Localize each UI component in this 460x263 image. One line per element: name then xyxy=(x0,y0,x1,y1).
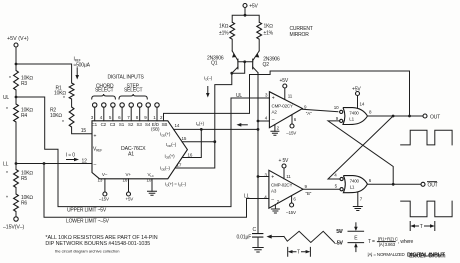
svg-text:LL: LL xyxy=(244,194,250,200)
label IO(-) current annotation with down arrow xyxy=(204,75,213,97)
svg-text:*ALL 10KΩ RESISTORS ARE PART O: *ALL 10KΩ RESISTORS ARE PART OF 14-PIN xyxy=(45,235,157,241)
resistor R3 xyxy=(9,71,33,91)
svg-text:IOE(–): IOE(–) xyxy=(160,166,171,172)
svg-text:|A| = NORMALIZED: |A| = NORMALIZED xyxy=(368,252,406,257)
svg-text:9: 9 xyxy=(336,116,339,121)
node LL xyxy=(3,161,17,167)
wire A2 inverting input from cap bus xyxy=(258,120,269,122)
node junction top-left rail xyxy=(15,63,18,66)
svg-text:–: – xyxy=(272,117,275,123)
label E amplitude annotation xyxy=(335,223,364,252)
svg-text:C1: C1 xyxy=(92,122,98,127)
NAND gate L1 bottom 7400 xyxy=(334,172,372,192)
resistor R1 xyxy=(54,83,74,102)
svg-text:R4: R4 xyxy=(21,113,27,119)
svg-text:5: 5 xyxy=(335,184,338,189)
svg-text:15: 15 xyxy=(182,136,187,141)
svg-text:16: 16 xyxy=(123,177,128,182)
svg-text:R5: R5 xyxy=(21,176,27,182)
svg-text:CMP-02CY: CMP-02CY xyxy=(271,182,292,187)
label A2 output node A xyxy=(304,105,312,117)
label period formula xyxy=(368,236,414,246)
svg-text:17: 17 xyxy=(177,163,182,168)
svg-text:|A| 3.863: |A| 3.863 xyxy=(379,242,396,247)
svg-text:+5V: +5V xyxy=(249,3,258,9)
square wave symbol top OUT xyxy=(401,130,452,145)
svg-text:1KΩ: 1KΩ xyxy=(219,24,229,30)
svg-text:*: * xyxy=(9,76,11,82)
ground capacitor xyxy=(253,248,263,253)
svg-text:OUT: OUT xyxy=(430,114,440,120)
svg-text:CMP-02CY: CMP-02CY xyxy=(272,103,293,108)
label I=0 with arrow xyxy=(66,152,87,164)
label STEP SELECT xyxy=(124,83,142,93)
svg-text:LL: LL xyxy=(3,161,9,167)
wire OUT from gate 8 xyxy=(368,115,424,117)
svg-text:13: 13 xyxy=(98,177,103,182)
svg-text:+5V: +5V xyxy=(126,196,134,201)
label triangle wave annotation arrow to cap xyxy=(267,235,285,239)
wire Q2 collector to capacitor bus xyxy=(257,73,259,234)
node UL xyxy=(3,95,17,101)
svg-text:*: * xyxy=(6,171,8,177)
wire SB feedback from OUT xyxy=(164,71,410,121)
svg-text:1KΩ: 1KΩ xyxy=(264,24,274,30)
svg-text:10: 10 xyxy=(147,177,152,182)
svg-text:±1%: ±1% xyxy=(264,31,274,37)
svg-text:+: + xyxy=(94,134,97,140)
svg-text:0.01μF: 0.01μF xyxy=(237,234,252,240)
svg-text:12: 12 xyxy=(82,158,88,164)
ground VLC xyxy=(148,191,157,195)
svg-text:11: 11 xyxy=(288,94,293,99)
node OUTbar terminal xyxy=(421,182,438,189)
brace chord group xyxy=(92,94,116,99)
svg-text:UL: UL xyxy=(3,95,9,101)
triangle waveform symbol xyxy=(284,231,334,242)
svg-text:7: 7 xyxy=(360,197,363,202)
svg-text:–15V: –15V xyxy=(99,197,109,202)
resistor R4 xyxy=(6,104,33,122)
wire latch cross coupling B (out to input 4) xyxy=(328,116,393,179)
resistor 1k left xyxy=(219,22,235,39)
svg-text:+ 5V: + 5V xyxy=(279,158,290,164)
svg-text:S3: S3 xyxy=(137,122,143,127)
label T period marker triangle xyxy=(288,247,311,256)
svg-text:9: 9 xyxy=(305,184,308,189)
svg-text:SELECT: SELECT xyxy=(95,88,113,94)
capacitor C 0.01uF xyxy=(237,227,264,248)
resistor 1k right xyxy=(257,22,274,39)
svg-text:MIRROR: MIRROR xyxy=(290,32,310,38)
svg-text:8: 8 xyxy=(369,110,372,115)
svg-text:L1: L1 xyxy=(349,117,354,122)
svg-text:6: 6 xyxy=(293,197,296,202)
svg-text:*: * xyxy=(6,107,8,113)
brace step group xyxy=(119,94,147,99)
svg-text:+: + xyxy=(271,175,274,181)
wire LL branch to lower-limit run xyxy=(44,164,269,218)
A3 -15V supply pin 6 xyxy=(286,196,296,215)
node OUT terminal xyxy=(423,114,440,120)
ground bottom gate pin 7 xyxy=(353,193,363,211)
svg-text:R3: R3 xyxy=(21,81,27,87)
DAC input pin labels C1..SB xyxy=(92,122,168,132)
comparator A3 CMP-02CY xyxy=(264,170,303,208)
svg-text:*: * xyxy=(63,96,65,102)
wire A3 + input from cap bus xyxy=(258,176,269,178)
svg-text:2: 2 xyxy=(277,199,280,204)
svg-text:IO(+) = IO(–): IO(+) = IO(–) xyxy=(165,182,187,188)
svg-text:–15V: –15V xyxy=(286,131,296,136)
DAC pin V- 13 to -15V xyxy=(98,172,109,202)
A3 ground pin 2 xyxy=(271,199,279,213)
DAC output stub pin 17 IOE(-) tied to pin 15 xyxy=(160,140,216,171)
A2 +5V supply pin 11 xyxy=(280,78,293,99)
svg-text:9: 9 xyxy=(144,115,147,120)
svg-text:11: 11 xyxy=(286,174,291,179)
pin numbers digital inputs 3 4 5 6 7 8 9 1 xyxy=(91,115,157,120)
svg-text:*: * xyxy=(6,196,8,202)
svg-text:ElecEt–Gröem: ElecEt–Gröem xyxy=(409,254,445,260)
svg-text:2: 2 xyxy=(160,115,163,120)
comparator A2 CMP-02CY xyxy=(265,92,303,128)
wire latch cross coupling A (outbar to input 9) xyxy=(328,121,393,184)
node V+ (+5V terminal top-left) xyxy=(7,36,29,47)
svg-text:7: 7 xyxy=(127,115,130,120)
wire UL to upper-limit run xyxy=(16,97,269,207)
svg-text:3: 3 xyxy=(91,115,94,120)
svg-text:LOWER LIMIT ~–5V: LOWER LIMIT ~–5V xyxy=(66,218,110,224)
label normalized digital input note with watermark xyxy=(368,252,446,260)
label A3 output node B xyxy=(305,184,312,196)
svg-text:–15V(V–): –15V(V–) xyxy=(3,225,24,231)
A2 -15V supply pin 6 xyxy=(286,115,297,136)
DAC output stub pin 14 IOD(+) xyxy=(160,123,258,138)
node V- (-15V terminal bottom-left) xyxy=(3,217,24,231)
svg-text:V–: V– xyxy=(102,172,108,177)
svg-text:6: 6 xyxy=(118,115,121,120)
svg-text:A2: A2 xyxy=(272,109,278,114)
svg-text:V+: V+ xyxy=(126,172,132,177)
digital input terminals C1 C2 C3 S1 S2 S3 S4 E/D xyxy=(93,103,160,121)
svg-text:10KΩ: 10KΩ xyxy=(50,113,62,119)
svg-text:S2: S2 xyxy=(128,122,134,127)
svg-text:8: 8 xyxy=(136,115,139,120)
DAC A1 body (DAC-76CX) xyxy=(92,121,187,179)
svg-text:+: + xyxy=(272,96,275,102)
svg-text:4: 4 xyxy=(265,116,268,121)
svg-text:I ≈ 0: I ≈ 0 xyxy=(66,152,75,158)
A3 +5V supply pin 11 xyxy=(279,158,292,179)
transistor Q1 2N3906 xyxy=(207,51,238,73)
DAC output stub pin 15 IOD(-) xyxy=(166,136,215,148)
wire base tie Q1 Q2 diode connection xyxy=(232,62,253,73)
svg-text:T =: T = xyxy=(368,239,375,245)
svg-text:±1%: ±1% xyxy=(219,31,229,37)
svg-text:*: * xyxy=(62,120,64,126)
svg-text:(R1+R2) C: (R1+R2) C xyxy=(378,236,399,241)
svg-text:16: 16 xyxy=(188,152,193,157)
svg-text:Q2: Q2 xyxy=(263,62,270,68)
svg-text:, where: , where xyxy=(398,239,414,245)
A2 ground pin 2 xyxy=(271,125,280,136)
svg-text:5: 5 xyxy=(109,115,112,120)
resistor R2 xyxy=(50,107,74,127)
svg-text:SB: SB xyxy=(162,122,168,127)
svg-text:7400: 7400 xyxy=(350,179,360,184)
svg-text:6: 6 xyxy=(369,178,372,183)
node +5V terminal current mirror xyxy=(243,3,259,9)
svg-text:A3: A3 xyxy=(271,188,277,193)
svg-text:L1: L1 xyxy=(350,185,355,190)
svg-text:+5V (V+): +5V (V+) xyxy=(7,36,29,42)
wire A3 output to gate input 5 xyxy=(303,188,340,190)
svg-text:S1: S1 xyxy=(119,122,125,127)
svg-text:–: – xyxy=(271,197,274,203)
svg-text:IOE(+): IOE(+) xyxy=(165,154,176,160)
svg-text:2: 2 xyxy=(277,126,280,131)
svg-text:OUT: OUT xyxy=(428,183,438,189)
wire mirror supply rail xyxy=(232,8,259,51)
wire IREF branch to R1 xyxy=(16,64,92,134)
svg-text:5V: 5V xyxy=(337,229,344,235)
svg-text:≈500μA: ≈500μA xyxy=(74,63,91,69)
svg-text:–5V: –5V xyxy=(335,240,344,246)
wire left supply rail xyxy=(15,47,17,217)
DAC pin V+ 16 to +5V xyxy=(123,172,134,201)
svg-text:+5V: +5V xyxy=(352,86,361,92)
svg-text:3: 3 xyxy=(265,93,268,98)
svg-text:the circuit diagram archive co: the circuit diagram archive collection xyxy=(55,249,119,254)
svg-text:C3: C3 xyxy=(110,122,116,127)
transistor Q2 2N3906 xyxy=(253,51,280,73)
svg-text:E: E xyxy=(354,236,358,242)
resistor R5 xyxy=(6,170,33,188)
svg-text:IO(+): IO(+) xyxy=(196,121,205,127)
svg-text:–: – xyxy=(94,162,97,168)
svg-text:UPPER LIMIT ~5V: UPPER LIMIT ~5V xyxy=(67,208,107,214)
svg-text:T: T xyxy=(420,224,423,230)
label IREF current annotation xyxy=(74,57,91,80)
label T period marker square wave xyxy=(410,222,435,231)
svg-text:A1: A1 xyxy=(128,152,134,158)
svg-text:T: T xyxy=(297,250,300,256)
svg-text:9: 9 xyxy=(304,105,307,110)
svg-text:DIP NETWORK BOURNS #41548-001-: DIP NETWORK BOURNS #41548-001-1035 xyxy=(45,241,150,247)
svg-text:15: 15 xyxy=(81,128,87,134)
svg-text:(SB): (SB) xyxy=(151,127,160,132)
svg-text:IOD(–): IOD(–) xyxy=(166,142,177,148)
svg-text:4: 4 xyxy=(100,115,103,120)
label IO(+) current annotation with left arrow xyxy=(196,121,248,127)
DAC pin VLC 10 to ground xyxy=(147,172,154,191)
svg-text:IOD(+): IOD(+) xyxy=(160,132,171,138)
+5V supply top gate pin 14 xyxy=(352,86,361,108)
NAND gate L1 top 7400 xyxy=(334,102,372,125)
svg-text:14: 14 xyxy=(360,102,365,107)
svg-text:1: 1 xyxy=(153,115,156,120)
svg-text:IO(–): IO(–) xyxy=(204,75,213,81)
label CHORD SELECT xyxy=(95,83,114,93)
svg-text:Q1: Q1 xyxy=(211,61,218,67)
svg-text:DIGITAL INPUTS: DIGITAL INPUTS xyxy=(108,74,145,80)
svg-text:–15V: –15V xyxy=(286,210,296,215)
svg-text:VREF: VREF xyxy=(93,147,102,153)
label CURRENT MIRROR xyxy=(290,26,313,38)
wire A2 output to gate input 10 xyxy=(303,109,338,112)
svg-text:"A": "A" xyxy=(306,111,312,116)
svg-text:14: 14 xyxy=(175,123,180,128)
square wave symbol bottom OUTbar xyxy=(401,201,452,217)
svg-text:UL: UL xyxy=(236,93,242,99)
svg-text:7400: 7400 xyxy=(349,110,359,115)
svg-text:+5V: +5V xyxy=(280,78,289,84)
label note all 10k resistors xyxy=(45,235,157,247)
svg-text:"B": "B" xyxy=(306,191,312,196)
svg-text:SELECT: SELECT xyxy=(124,88,142,94)
wire LL to DAC pin 12 xyxy=(16,163,92,165)
svg-text:C: C xyxy=(253,227,257,233)
wire OUTbar from gate 6 xyxy=(367,183,421,185)
DAC output stub pin 16 IOE(+) tied to pin 14 xyxy=(165,128,203,160)
svg-text:S4: S4 xyxy=(145,122,151,127)
svg-text:6: 6 xyxy=(294,117,297,122)
wire Q1 collector IO(-) bus down to pins 15/17 xyxy=(215,73,232,142)
resistor R6 xyxy=(6,194,33,212)
svg-text:10: 10 xyxy=(334,105,339,110)
svg-text:C2: C2 xyxy=(101,122,107,127)
svg-text:R6: R6 xyxy=(21,200,27,206)
